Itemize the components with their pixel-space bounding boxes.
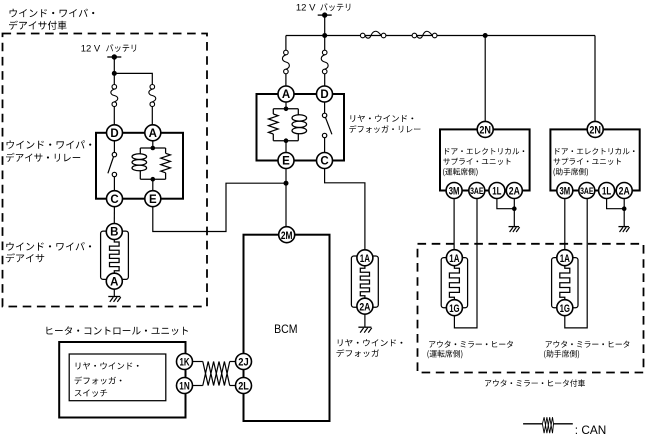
junction dot ground (driver) — [512, 206, 517, 211]
terminal 2A (door unit passenger) — [616, 183, 632, 199]
terminal 2J (BCM) — [236, 354, 252, 370]
wire top bar to coil (defogger relay) — [297, 109, 299, 115]
svg-text:1A: 1A — [560, 253, 570, 265]
fusible link F2 (left relay contact feed) — [149, 85, 156, 107]
label: window wiper de-icer line1 — [6, 242, 91, 251]
wire 1L to ground (driver) — [497, 199, 514, 209]
wire resistor stub bottom (left relay) — [165, 173, 167, 179]
wire switch to C (defogger relay) — [324, 138, 326, 153]
svg-text:12 V: 12 V — [81, 43, 101, 54]
label: window wiper de-icer relay line2 — [6, 153, 80, 162]
svg-text:12 V: 12 V — [296, 2, 316, 13]
label: rear window defogger switch line3 — [75, 389, 107, 396]
coil/resistor bottom bar (defogger relay) — [273, 140, 298, 142]
wire D to switch (defogger relay) — [324, 102, 326, 113]
svg-text:A: A — [282, 89, 290, 101]
fusible link F5 (door units feed 1) — [360, 31, 386, 38]
de-icer heater element — [110, 240, 120, 274]
battery node (left) — [107, 54, 121, 59]
wire battery to junction (left) — [113, 57, 115, 73]
BCM box — [244, 235, 330, 421]
defogger element outline — [351, 256, 378, 307]
terminal 2L (BCM) — [236, 378, 252, 394]
terminal 2M (BCM) — [279, 227, 295, 243]
CAN legend twisted pair — [542, 417, 553, 433]
mirror heater element (passenger) — [560, 266, 570, 300]
terminal 1N (heater control unit) — [177, 378, 193, 394]
wire F3 to A — [285, 74, 287, 86]
svg-text:D: D — [110, 128, 118, 140]
terminal E (defogger relay) — [278, 153, 294, 169]
svg-text:3AE: 3AE — [580, 186, 594, 197]
svg-text:D: D — [320, 89, 328, 101]
ground (door unit passenger) — [618, 227, 629, 232]
relay coil (left relay) — [132, 154, 147, 171]
label: rear window defogger line1 — [338, 339, 403, 346]
wire de-icer A to ground — [113, 289, 115, 296]
label: door unit passenger line3 — [554, 168, 589, 176]
terminal B (de-icer) — [106, 224, 122, 240]
terminal C (left relay) — [107, 191, 123, 207]
svg-text:B: B — [110, 227, 118, 239]
label: BCM — [274, 322, 297, 336]
wire coil to bottom bar (defogger relay) — [297, 134, 299, 141]
svg-text:1L: 1L — [492, 186, 501, 198]
terminal 1A (mirror heater passenger) — [557, 250, 573, 266]
defogger switch box — [69, 354, 166, 401]
terminal C (defogger relay) — [317, 153, 333, 169]
de-icer element outline — [101, 231, 129, 279]
label: heater control unit — [47, 326, 189, 335]
svg-text:2N: 2N — [479, 125, 491, 137]
label: window wiper de-icer relay line1 — [7, 140, 92, 149]
fusible link F6 (door units feed 2) — [412, 31, 437, 38]
wire 1G loop to 3AE (passenger) — [565, 199, 587, 328]
svg-text:A: A — [110, 276, 118, 288]
wire 2A down (driver) — [513, 199, 515, 209]
label: 12V battery (center) — [296, 2, 351, 13]
terminal 1A (defogger) — [357, 250, 373, 266]
wire 1N to twisted pair — [193, 385, 203, 387]
mirror heater element (driver) — [449, 266, 459, 300]
terminal E (left relay) — [145, 191, 161, 207]
svg-text:1A: 1A — [360, 253, 370, 265]
mirror heater outline (driver) — [441, 258, 467, 308]
terminal A (defogger relay) — [278, 86, 294, 102]
battery node (center) — [318, 12, 332, 17]
terminal D (left relay) — [107, 125, 123, 141]
wire to ground (driver) — [513, 209, 515, 227]
coil/resistor top bar (left relay) — [140, 147, 165, 149]
main bus wire — [286, 35, 595, 37]
fusible link F3 (defogger relay coil) — [282, 50, 289, 74]
label: rear window defogger switch line2 — [75, 377, 122, 385]
label: outer mirror heater driver line2 — [427, 350, 462, 359]
CAN twisted pair wire 1 — [203, 362, 230, 386]
wire F4 to D — [324, 74, 326, 86]
wire junction to right branch (left relay) — [114, 73, 152, 84]
svg-text:1G: 1G — [449, 303, 460, 315]
wire bus down to relay D branch — [324, 36, 326, 51]
terminal 3AE (door unit passenger) — [579, 183, 595, 199]
dashed box: outer mirror heater equipped vehicles — [418, 244, 644, 373]
label: rear window defogger relay line1 — [351, 115, 414, 122]
switch contact (defogger relay) — [322, 113, 332, 137]
svg-text:E: E — [149, 194, 157, 206]
wire battery to main junction — [324, 15, 326, 35]
CAN legend right wire — [554, 423, 573, 425]
svg-text:E: E — [282, 156, 290, 168]
terminal 2A (defogger) — [357, 298, 373, 314]
wire bus down to relay A branch — [285, 36, 287, 51]
heater control unit box — [59, 342, 185, 418]
relay box: window wiper de-icer relay — [96, 133, 183, 199]
node dot coil bottom (defogger relay) — [284, 138, 289, 143]
terminal 1A (mirror heater driver) — [446, 250, 462, 266]
svg-text:1K: 1K — [180, 357, 190, 369]
coil/resistor top bar (defogger relay) — [273, 108, 298, 110]
ground (de-icer) — [108, 297, 120, 302]
label: door unit driver line1 — [445, 148, 524, 155]
wire twisted pair to 2L — [230, 385, 236, 387]
fusible link F4 (defogger relay contact) — [321, 50, 328, 74]
svg-text:A: A — [149, 128, 157, 140]
label: outer mirror heater passenger line2 — [544, 350, 579, 359]
wire bus to door unit 2 2N — [594, 36, 596, 122]
wire bottom bar to E (left relay) — [152, 179, 154, 191]
resistor (left relay) — [161, 153, 171, 173]
svg-text:1A: 1A — [449, 253, 459, 265]
mirror heater outline (passenger) — [552, 258, 578, 308]
terminal 3M (door unit driver) — [446, 183, 462, 199]
label: door unit driver line3 — [443, 168, 478, 176]
wire coil to bottom bar (left relay) — [139, 171, 141, 179]
wire 1K to twisted pair — [193, 361, 203, 363]
wire A to coil node (left relay) — [152, 141, 154, 148]
terminal D (defogger relay) — [317, 86, 333, 102]
label: window wiper de-icer line2 — [6, 253, 44, 262]
label: door unit passenger line2 — [554, 158, 621, 165]
svg-text:1G: 1G — [560, 303, 571, 315]
junction dot main bus at battery — [322, 33, 327, 38]
CAN twisted pair wire 2 — [203, 362, 230, 386]
svg-text:2M: 2M — [281, 230, 293, 242]
defogger heater element — [360, 266, 369, 298]
label: outer mirror heater driver line1 — [429, 341, 513, 348]
svg-text:3AE: 3AE — [470, 186, 484, 197]
wire switch to C (left relay) — [113, 177, 115, 191]
wire bottom bar to E (defogger relay) — [285, 141, 287, 153]
terminal A (de-icer) — [106, 273, 122, 289]
wire 1G loop to 3AE (driver) — [454, 199, 477, 328]
svg-text:3M: 3M — [449, 186, 460, 198]
node dot coil bottom (left relay) — [151, 177, 156, 182]
door electrical supply unit box (driver) — [440, 129, 530, 190]
wire 3M to mirror heater 1A (driver) — [453, 199, 455, 250]
terminal 1G (mirror heater passenger) — [557, 300, 573, 316]
wire F2 to terminal A — [151, 107, 153, 125]
coil/resistor bottom bar (left relay) — [140, 178, 165, 180]
wire defogger 2A to ground — [364, 314, 366, 327]
resistor (defogger relay) — [269, 114, 279, 134]
wire resistor stub top (defogger relay) — [272, 109, 274, 114]
junction dot (left battery) — [112, 71, 117, 76]
label: door unit passenger line1 — [555, 148, 634, 155]
door electrical supply unit box (passenger) — [550, 129, 639, 190]
wire C defogger relay to defogger 1A — [325, 169, 365, 250]
terminal 3AE (door unit driver) — [469, 183, 485, 199]
wire D to switch (left relay) — [113, 141, 115, 153]
terminal 2N (door unit passenger) — [587, 121, 603, 137]
label: 12V battery (left) — [81, 43, 137, 54]
label: outer mirror heater equipped vehicle — [485, 379, 585, 387]
terminal 1L (door unit driver) — [489, 183, 505, 199]
wire 1L to ground (passenger) — [607, 199, 625, 209]
wire 3M to mirror heater 1A (passenger) — [564, 199, 566, 250]
terminal 2N (door unit driver) — [477, 121, 493, 137]
svg-text:1L: 1L — [602, 186, 611, 198]
wire E defogger relay to BCM 2M — [285, 169, 287, 227]
relay coil (defogger relay) — [292, 115, 307, 134]
wire resistor stub top (left relay) — [165, 148, 167, 153]
label: window wiper de-icer equipped vehicle line1 — [10, 9, 95, 18]
wire twisted pair to 2J — [230, 361, 236, 363]
wire junction down left branch — [113, 73, 115, 84]
svg-text:: CAN: : CAN — [575, 423, 606, 436]
svg-text:2J: 2J — [238, 357, 248, 369]
junction dot E feed — [284, 181, 289, 186]
wire bus to door unit 1 2N — [484, 36, 486, 122]
fusible link F1 (left relay coil feed) — [111, 85, 118, 107]
label: outer mirror heater passenger line1 — [546, 341, 630, 348]
terminal 3M (door unit passenger) — [557, 183, 573, 199]
wire A to coil node (defogger relay) — [285, 102, 287, 109]
svg-text:2N: 2N — [589, 125, 601, 137]
terminal 1G (mirror heater driver) — [446, 300, 462, 316]
wire top bar to coil (left relay) — [139, 148, 141, 154]
node dot coil top (left relay) — [151, 146, 156, 151]
svg-text:2A: 2A — [509, 186, 520, 198]
svg-text:BCM: BCM — [274, 322, 297, 336]
terminal 1L (door unit passenger) — [599, 183, 615, 199]
svg-text:2A: 2A — [619, 186, 630, 198]
wire E left relay to BCM feed — [153, 183, 285, 231]
wire 2A down (passenger) — [623, 199, 625, 209]
wire to ground (passenger) — [623, 209, 625, 227]
junction dot ground (passenger) — [622, 206, 627, 211]
junction dot main bus to door units — [483, 33, 488, 38]
wire F1 to terminal D — [113, 107, 115, 125]
relay box: rear window defogger relay — [257, 94, 345, 161]
svg-text:C: C — [110, 194, 118, 206]
dashed box: wiper de-icer equipped vehicles — [3, 34, 208, 307]
svg-text:2L: 2L — [238, 381, 249, 393]
label: CAN — [575, 423, 606, 436]
terminal 2A (door unit driver) — [506, 183, 522, 199]
svg-text:C: C — [320, 156, 328, 168]
terminal 1K (heater control unit) — [177, 354, 193, 370]
wire C to de-icer B — [113, 207, 115, 224]
ground (door unit driver) — [509, 227, 520, 232]
label: rear window defogger line2 — [337, 349, 380, 357]
label: rear window defogger relay line2 — [349, 125, 420, 133]
ground (defogger) — [358, 327, 371, 332]
wire resistor stub bottom (defogger relay) — [272, 134, 274, 141]
terminal A (left relay) — [145, 125, 161, 141]
label: rear window defogger switch line1 — [76, 362, 139, 369]
switch contact (left relay) — [108, 152, 117, 176]
node dot coil top (defogger relay) — [284, 107, 289, 112]
svg-text:1N: 1N — [179, 381, 189, 393]
CAN legend left wire — [523, 423, 542, 425]
label: window wiper de-icer equipped vehicle line2 — [9, 21, 67, 30]
svg-text:3M: 3M — [559, 186, 570, 198]
label: door unit driver line2 — [443, 158, 510, 165]
svg-text:2A: 2A — [359, 301, 370, 313]
